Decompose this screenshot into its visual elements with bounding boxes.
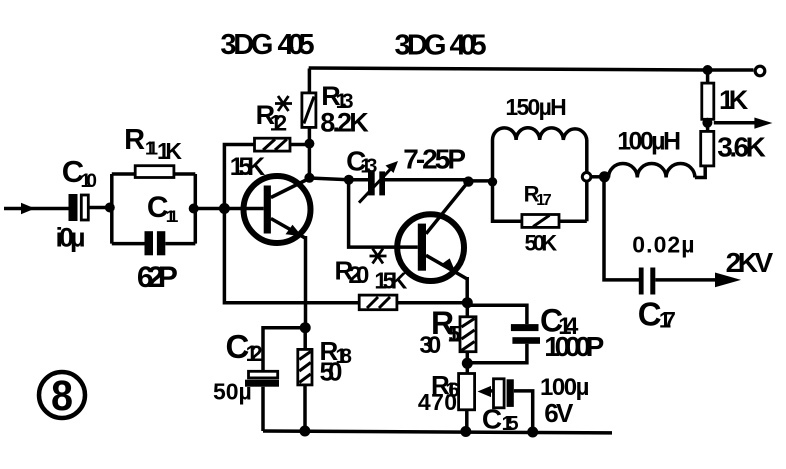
svg-text:470: 470	[418, 389, 457, 415]
svg-text:7-25P: 7-25P	[403, 144, 466, 175]
svg-text:62P: 62P	[137, 261, 178, 294]
svg-text:15: 15	[448, 322, 461, 347]
svg-text:17: 17	[536, 192, 551, 209]
svg-text:2KV: 2KV	[726, 247, 774, 278]
svg-text:12: 12	[246, 341, 263, 366]
svg-text:100µ: 100µ	[540, 374, 589, 401]
svg-text:50K: 50K	[525, 231, 558, 256]
svg-text:11: 11	[166, 207, 179, 226]
svg-text:10: 10	[81, 171, 98, 192]
svg-text:100µH: 100µH	[617, 128, 681, 156]
svg-text:12: 12	[270, 111, 288, 136]
svg-text:13: 13	[360, 156, 377, 178]
svg-text:150µH: 150µH	[505, 94, 566, 120]
svg-text:20: 20	[348, 262, 369, 289]
svg-text:0.02µ: 0.02µ	[632, 231, 694, 257]
svg-text:3.6K: 3.6K	[717, 132, 766, 163]
svg-text:C: C	[482, 404, 502, 435]
svg-text:8.2K: 8.2K	[320, 108, 369, 138]
svg-text:30: 30	[419, 332, 441, 359]
svg-text:8: 8	[51, 372, 73, 420]
svg-text:R: R	[124, 124, 145, 156]
svg-text:1K: 1K	[157, 138, 182, 164]
svg-text:405: 405	[450, 30, 487, 62]
svg-text:50: 50	[320, 357, 343, 387]
svg-text:15: 15	[502, 413, 519, 435]
svg-text:15K: 15K	[230, 153, 266, 181]
svg-text:50µ: 50µ	[213, 379, 252, 405]
svg-text:3DG: 3DG	[395, 30, 447, 62]
svg-text:1K: 1K	[719, 85, 749, 115]
svg-text:405: 405	[278, 29, 315, 61]
svg-text:3DG: 3DG	[220, 29, 273, 61]
svg-text:i0µ: i0µ	[56, 223, 86, 253]
svg-text:6V: 6V	[544, 398, 574, 428]
svg-text:17: 17	[659, 307, 676, 332]
svg-text:1000P: 1000P	[544, 331, 604, 362]
svg-text:15K: 15K	[374, 268, 407, 294]
